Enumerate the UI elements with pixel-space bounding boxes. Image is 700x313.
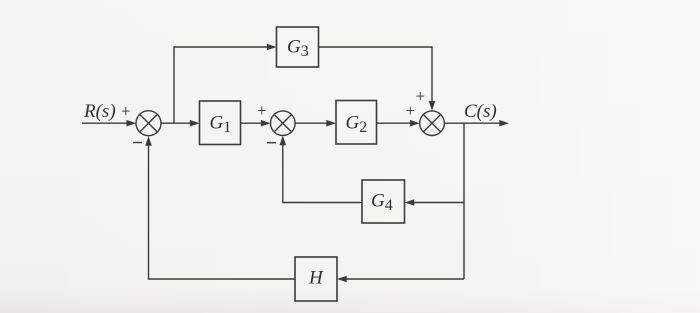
block G1 [200,101,241,145]
svg-text:+: + [121,102,131,121]
wire: G1 to summer S2 [241,120,271,127]
svg-text:+: + [257,101,267,120]
summer S3 [420,111,445,136]
output label C(s) [464,101,497,122]
wire: takeoff to block G4 [405,199,465,206]
svg-text:H: H [308,268,324,289]
block H [295,257,337,301]
wire: G3 output to summer S3 top [319,47,436,111]
summer S2 [271,111,296,136]
wire: S3 to output C(s) [444,120,509,127]
node B takeoff riser from output [463,123,465,279]
svg-text:+: + [406,101,416,120]
svg-text:R(s): R(s) [83,101,116,122]
block G2 [336,101,377,145]
sign + at S2 input [257,101,267,120]
input label R(s) [83,101,116,122]
summer S1 [136,111,161,136]
wire: S2 to block G2 [295,120,336,127]
svg-text:C(s): C(s) [464,101,497,122]
wire: takeoff to block H [337,276,464,283]
block G4 [362,180,405,223]
wire: G2 to summer S3 [377,120,420,127]
sign - at S1 feedback input [133,142,142,144]
wire: S1 to block G1 with branch node A [161,120,200,127]
block G3 [277,27,319,67]
wire: input into summer S1 [82,120,136,127]
sign + at S3 left input [406,101,416,120]
node A branch riser to G3 [174,44,277,124]
wire: H output up into summer S1 bottom [145,136,295,279]
wire: G4 output up into summer S2 bottom [280,136,363,203]
sign - at S2 feedback input [267,142,276,144]
sign + at S3 top input [416,87,426,106]
svg-text:+: + [416,87,426,106]
sign + at S1 input [121,102,131,121]
